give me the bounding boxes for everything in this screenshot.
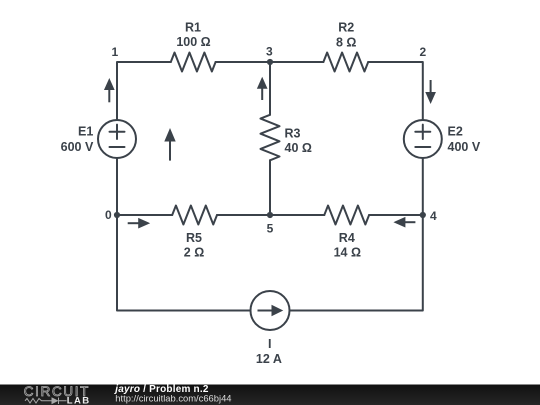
svg-text:E1: E1 [78,124,93,138]
resistor R4 [324,206,369,225]
voltage source E1 [98,120,136,158]
wire R4 to node4 [369,214,423,216]
E2 plus sign [415,125,430,139]
current source I internal arrow [258,306,282,314]
svg-text:I: I [268,337,271,351]
resistor R2 [323,53,368,72]
svg-text:4: 4 [430,209,437,223]
junction node 5 [267,212,273,218]
logo squiggle resistor and diode [25,398,67,405]
wire node5 to R4 [270,214,324,216]
svg-text:http://circuitlab.com/c66bj44: http://circuitlab.com/c66bj44 [115,392,231,403]
E1 minus sign [110,146,125,148]
svg-text:E2: E2 [448,124,463,138]
svg-text:R4: R4 [339,231,355,245]
current arrow up beside R3 [258,79,266,100]
svg-text:2 Ω: 2 Ω [184,246,204,260]
junction node 3 [267,59,273,65]
current arrow right beside node 0 [128,219,148,227]
logo diode triangle [52,397,59,404]
svg-text:100 Ω: 100 Ω [176,35,210,49]
current source I [251,291,290,330]
wire node0 to R5 [117,214,172,216]
current arrow up middle beside E1 [166,131,174,161]
E1 plus sign [110,125,125,139]
wire R3 to node5 [269,160,271,215]
current arrow down beside node 2 [427,80,435,102]
wire R1 to node3 [216,61,270,63]
E2 minus sign [415,146,430,148]
svg-text:14 Ω: 14 Ω [334,245,361,259]
svg-text:40 Ω: 40 Ω [285,141,312,155]
svg-text:5: 5 [267,221,274,235]
resistor R5 [172,206,217,225]
resistor R3 [261,115,280,161]
svg-text:LAB: LAB [67,395,91,405]
wire node3 down to R3 [269,62,271,115]
svg-text:400 V: 400 V [448,140,481,154]
svg-text:600 V: 600 V [61,140,94,154]
junction node 0 [114,212,120,218]
svg-text:3: 3 [266,45,273,59]
wire E2 bottom through node4 to bottom-right corner [290,158,423,311]
svg-text:R1: R1 [185,20,201,34]
svg-text:R3: R3 [285,127,301,141]
svg-text:2: 2 [419,45,426,59]
svg-text:1: 1 [111,45,118,59]
voltage source E2 [404,120,442,158]
svg-text:R5: R5 [186,231,202,245]
junction node 4 [420,212,426,218]
wire R2 to node2 corner down to E2 [368,62,423,120]
wire R5 to node5 [217,214,270,216]
current arrow up beside node 1 [106,81,114,103]
svg-text:0: 0 [105,208,112,222]
resistor R1 [171,53,216,72]
wire top-left node1 to R1 [117,62,171,120]
current arrow left beside node 4 [396,218,416,226]
svg-text:R2: R2 [338,20,354,34]
svg-text:8 Ω: 8 Ω [336,36,356,50]
wire E1 bottom through node0 to bottom-left corner [117,158,251,311]
svg-text:12 A: 12 A [256,352,282,366]
wire node3 to R2 [270,61,323,63]
